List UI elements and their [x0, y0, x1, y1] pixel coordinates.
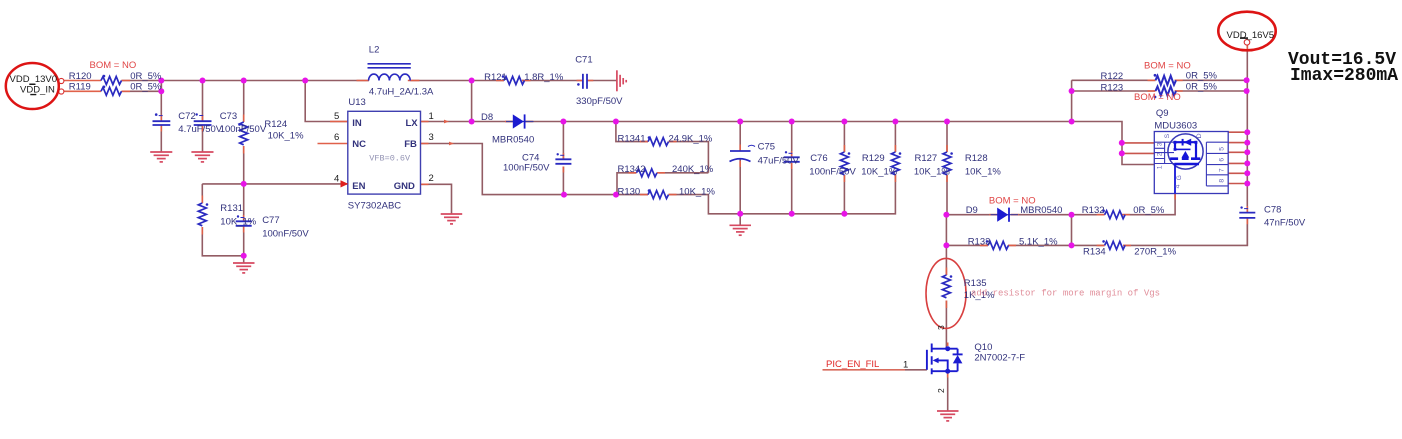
capacitor C71 horizontal — [583, 74, 587, 89]
pin leads C74 — [562, 153, 564, 173]
svg-text:R120: R120 — [69, 71, 92, 82]
junction R123 left — [1069, 88, 1075, 94]
junction Q9 drain stub 1 — [1244, 129, 1250, 135]
resistor R124 vertical — [240, 122, 248, 145]
wire Q9 right pin stubs — [1228, 132, 1247, 183]
wire GND pin2 to ground — [421, 184, 452, 213]
resistor R133 — [988, 241, 1008, 249]
junction R123 right on VDD_16V5 rail — [1244, 88, 1250, 94]
svg-text:BOM = NO: BOM = NO — [1144, 60, 1191, 71]
svg-text:MBR0540: MBR0540 — [492, 135, 534, 146]
transistor Q10 symbol — [927, 344, 963, 375]
wire R121 leads — [472, 80, 583, 82]
arrowhead LX wire — [444, 120, 449, 124]
pin leads C76 — [791, 151, 793, 169]
svg-text:2: 2 — [936, 388, 946, 393]
Q9 inner pin cells left — [1154, 142, 1174, 163]
pin leads R135 — [945, 268, 947, 309]
svg-text:10K_1%: 10K_1% — [679, 186, 715, 197]
junction Q9 source stub 2 — [1119, 150, 1125, 156]
wire VDD_IN row to R119 — [64, 90, 101, 92]
svg-text:1.8R_1%: 1.8R_1% — [524, 72, 564, 83]
svg-text:NC: NC — [352, 139, 366, 150]
resistor R132 — [1105, 211, 1126, 219]
wire vertical tie at x161 — [160, 81, 162, 92]
junction C74 bottom FB net — [561, 192, 567, 198]
svg-text:VFB=0.6V: VFB=0.6V — [369, 153, 411, 163]
pin leads C71 — [577, 80, 594, 82]
pin leads C73 — [202, 115, 204, 132]
svg-text:C75: C75 — [758, 141, 775, 152]
ground bank — [730, 225, 752, 235]
wire R119 out to junction — [122, 90, 162, 92]
pin leads C78 — [1246, 206, 1248, 224]
junction Q9 source stub 1 — [1119, 140, 1125, 146]
svg-text:D8: D8 — [481, 112, 493, 123]
resistor R127 vertical — [891, 152, 899, 175]
wire C71 to ground — [587, 80, 617, 82]
junction R129 bottom — [841, 211, 847, 217]
pin leads R130 — [640, 194, 677, 196]
junction R119 tie — [158, 88, 164, 94]
svg-text:10K_1%: 10K_1% — [220, 216, 256, 227]
svg-text:0R_5%: 0R_5% — [130, 71, 162, 82]
junction C75 top — [737, 119, 743, 125]
EN input arrow — [341, 180, 349, 187]
svg-text:EN: EN — [352, 181, 365, 192]
svg-text:LX: LX — [406, 118, 419, 129]
svg-text:4.7uH_2A/1.3A: 4.7uH_2A/1.3A — [369, 87, 434, 98]
svg-text:5: 5 — [1218, 147, 1225, 151]
svg-text:47uF/50V: 47uF/50V — [758, 155, 800, 166]
junction R122 right on VDD_16V5 rail — [1244, 77, 1250, 83]
wire IN pin drop — [305, 81, 348, 122]
junction R129 top — [841, 119, 847, 125]
pin leads Q10 — [947, 343, 949, 378]
wire Q10 source to ground — [947, 371, 949, 411]
resistor R1341 — [648, 138, 668, 146]
svg-text:R130: R130 — [618, 186, 641, 197]
svg-text:L2: L2 — [369, 44, 380, 55]
pin leads R128 — [946, 145, 948, 182]
junction C76 bottom — [789, 211, 795, 217]
svg-text:C78: C78 — [1264, 204, 1281, 215]
svg-text:24.9K_1%: 24.9K_1% — [669, 134, 713, 145]
wire R132 row — [1072, 194, 1176, 215]
svg-text:6: 6 — [334, 132, 339, 143]
junction C73 top — [200, 78, 206, 84]
ground U13 GND pin — [441, 214, 463, 224]
wire R129 column — [843, 122, 845, 214]
svg-text:VDD_16V5: VDD_16V5 — [1227, 30, 1275, 41]
svg-text:G: G — [1176, 175, 1183, 180]
diode D9 — [991, 214, 1019, 216]
junction R127 top — [892, 119, 898, 125]
capacitor C76 — [784, 157, 800, 162]
svg-text:MDU3603: MDU3603 — [1154, 120, 1197, 131]
junction Q9 drain stub 3 — [1244, 149, 1250, 155]
wire C78 bottom gap — [1246, 218, 1248, 246]
pin leads R122 — [1148, 79, 1183, 81]
svg-text:6: 6 — [1218, 158, 1225, 162]
Q9 substrate arrow — [1182, 151, 1190, 158]
svg-text:10K_1%: 10K_1% — [965, 167, 1001, 178]
junction Q9 drain stub 5 — [1244, 170, 1250, 176]
svg-text:U13: U13 — [348, 97, 365, 108]
wire IN pin stub bright — [330, 121, 348, 123]
resistor R128 vertical — [943, 152, 951, 175]
svg-text:47nF/50V: 47nF/50V — [1264, 218, 1306, 229]
pin leads R1341 — [640, 141, 677, 143]
svg-text:0R_5%: 0R_5% — [1186, 82, 1218, 93]
resistor R123 — [1156, 87, 1177, 96]
svg-text:10K_1%: 10K_1% — [268, 131, 304, 142]
svg-text:C71: C71 — [575, 54, 592, 65]
pin leads D9 — [989, 214, 1018, 216]
pin leads R121 — [496, 80, 531, 82]
wire R130 branch — [616, 195, 740, 214]
junction IN drop — [302, 78, 308, 84]
capacitor C78 — [1239, 213, 1255, 218]
svg-text:R1342: R1342 — [618, 164, 646, 175]
Q9 body diode — [1182, 139, 1184, 146]
junction R1342 FB net — [613, 192, 619, 198]
junction C74 top — [560, 119, 566, 125]
svg-text:0R_5%: 0R_5% — [1186, 70, 1218, 81]
wire Q9 left pin stubs — [1122, 143, 1154, 154]
pin lead VDD_16V5 port — [1246, 45, 1248, 51]
svg-text:Q10: Q10 — [974, 342, 992, 353]
Q9 inner pin cells right — [1206, 142, 1228, 186]
port circle VDD_IN — [59, 89, 64, 94]
pin leads R132 — [1097, 214, 1130, 216]
resistor R134 — [1105, 241, 1126, 249]
svg-text:IN: IN — [352, 118, 362, 129]
wire R131 leads — [202, 184, 243, 256]
svg-text:2: 2 — [1156, 152, 1163, 156]
svg-text:R119: R119 — [69, 82, 91, 93]
wire C72 column — [160, 81, 162, 152]
svg-text:R122: R122 — [1101, 71, 1124, 82]
junction EN node — [241, 181, 247, 187]
wire C75 column — [739, 122, 741, 214]
wire R1342 branch — [617, 173, 708, 195]
resistor R129 vertical — [840, 152, 848, 175]
svg-text:Imax=280mA: Imax=280mA — [1290, 66, 1398, 86]
arrowhead FB wire — [449, 142, 454, 146]
wire FB pin to FB row — [421, 144, 617, 195]
svg-text:100nF/50V: 100nF/50V — [220, 124, 267, 135]
svg-text:3: 3 — [1156, 142, 1163, 146]
ellipse highlight left — [6, 63, 59, 109]
wire top rail to L2 — [161, 80, 369, 82]
Q10 pin junction dots — [945, 346, 950, 351]
junction LX node — [469, 119, 475, 125]
resistor R120 — [101, 77, 122, 85]
svg-text:4: 4 — [1175, 184, 1182, 188]
wire R134 row — [1072, 218, 1248, 245]
svg-text:10K_1%: 10K_1% — [914, 167, 950, 178]
resistor R122 — [1156, 76, 1177, 85]
pin leads C75 — [739, 145, 741, 168]
wire R123 row to rail — [1114, 90, 1247, 92]
svg-text:270R_1%: 270R_1% — [1134, 246, 1176, 257]
pin leads R131 — [201, 196, 203, 235]
pin leads R1342 — [629, 172, 666, 174]
svg-text:SY7302ABC: SY7302ABC — [348, 201, 401, 212]
wire D9 row — [946, 214, 1071, 216]
wire Vout rail D8 row — [472, 121, 1072, 123]
svg-text:R134: R134 — [1083, 246, 1106, 257]
wire C76 column — [791, 122, 793, 214]
wire VDD_16V5 rail — [1246, 45, 1248, 212]
ground C72 — [150, 152, 172, 162]
wire EN net — [202, 183, 347, 185]
junction R124 top — [241, 78, 247, 84]
wire R122 R123 left verticals — [1072, 80, 1114, 121]
junction L2 out / R121 — [469, 78, 475, 84]
svg-text:R135: R135 — [964, 278, 987, 289]
svg-text:2N7002-7-F: 2N7002-7-F — [974, 352, 1025, 363]
resistor R121 — [504, 77, 524, 85]
svg-text:3: 3 — [429, 132, 434, 143]
pin leads R124 — [243, 115, 245, 154]
junction Q9 drain stub 2 — [1244, 140, 1250, 146]
junction R1341 tap — [613, 119, 619, 125]
svg-text:1: 1 — [1156, 165, 1163, 169]
pin leads R134 — [1097, 244, 1131, 246]
svg-text:R132: R132 — [1082, 205, 1105, 216]
wire Q10 gate net — [823, 369, 906, 371]
svg-text:100nF/50V: 100nF/50V — [809, 167, 856, 178]
svg-text:MBR0540: MBR0540 — [1020, 205, 1062, 216]
svg-text:0R_5%: 0R_5% — [130, 82, 162, 93]
wire bank bottom — [740, 174, 895, 214]
wire rail corner to Q9 left pins — [1072, 122, 1155, 165]
junction VIN rail at C72 — [158, 78, 164, 84]
svg-text:1: 1 — [429, 111, 434, 122]
pin lead Q9 gate — [1174, 194, 1176, 200]
svg-text:C72: C72 — [178, 111, 195, 122]
Q9 mosfet circle — [1168, 134, 1203, 169]
IC box U13 — [348, 111, 421, 194]
wire VDD_13V0 row to R120 — [64, 80, 101, 82]
resistor R135 vertical — [942, 275, 950, 298]
svg-text:Q9: Q9 — [1156, 108, 1169, 119]
wire R128 to R133 node vertical — [945, 215, 947, 246]
ellipse highlight VDD_16V5 — [1218, 12, 1275, 51]
pin leads C72 — [160, 115, 162, 132]
ground C73 — [191, 152, 213, 162]
junction R133 right / R134 — [1069, 242, 1075, 248]
resistor R1342 — [637, 169, 657, 177]
resistor R119 — [101, 87, 122, 95]
wire NC pin stub — [318, 143, 348, 145]
junction R128 top — [944, 119, 950, 125]
junction R128 bottom / D9 anode — [943, 212, 949, 218]
wire LX to Vout rail — [421, 81, 472, 122]
ground C71 rotated — [617, 70, 626, 91]
svg-text:S: S — [1164, 133, 1171, 138]
capacitor C72 — [153, 121, 171, 125]
svg-text:5: 5 — [334, 111, 339, 122]
pin leads R127 — [894, 145, 896, 182]
svg-text:4: 4 — [334, 174, 339, 185]
wire R124 column — [243, 81, 245, 184]
svg-text:FB: FB — [404, 139, 417, 150]
svg-text:R1341: R1341 — [618, 134, 646, 145]
ground Q10 — [937, 411, 959, 421]
junction C77 bottom — [241, 253, 247, 259]
wire R133 row — [946, 244, 1071, 246]
capacitor C74 — [555, 159, 571, 164]
junction R133 left / R135 top — [943, 242, 949, 248]
svg-text:D9: D9 — [966, 205, 978, 216]
pin leads R120 R119 — [121, 81, 130, 92]
wire R135 column — [945, 245, 947, 348]
svg-text:R133: R133 — [968, 237, 991, 248]
junction bank ground at C75 — [737, 211, 743, 217]
svg-text:VDD_IN: VDD_IN — [20, 84, 55, 95]
port circle VDD_13V0 — [59, 78, 64, 83]
pin leads D8 — [505, 121, 533, 123]
pin leads L2 — [357, 80, 420, 82]
svg-text:240K_1%: 240K_1% — [672, 164, 714, 175]
wire C73 column — [202, 81, 204, 152]
svg-text:330pF/50V: 330pF/50V — [576, 96, 623, 107]
wire L2 right to R121 tap — [410, 80, 471, 82]
Q9 mosfet internals — [1170, 142, 1200, 193]
wire R128 column — [946, 122, 948, 215]
resistor R130 — [648, 191, 668, 199]
inductor L2 — [368, 64, 411, 81]
svg-text:5.1K_1%: 5.1K_1% — [1019, 237, 1058, 248]
svg-text:4.7uF/50V: 4.7uF/50V — [178, 124, 222, 135]
svg-text:R128: R128 — [965, 153, 988, 164]
pin leads U13 right — [421, 122, 429, 185]
svg-text:PIC_EN_FIL: PIC_EN_FIL — [826, 359, 879, 370]
svg-text:1: 1 — [903, 359, 908, 370]
svg-text:BOM = NO: BOM = NO — [1134, 92, 1181, 103]
ground C77 — [233, 263, 255, 273]
wire R120 out to junction — [122, 80, 162, 82]
wire R122 row to rail — [1114, 79, 1247, 81]
capacitor C73 — [194, 121, 212, 125]
svg-text:R123: R123 — [1101, 82, 1124, 93]
svg-text:C77: C77 — [262, 215, 279, 226]
ellipse highlight R135 — [926, 258, 966, 328]
wire D9-R133 vertical — [1071, 215, 1073, 246]
wire C77 ground stem — [243, 256, 245, 263]
svg-text:R121: R121 — [484, 72, 507, 83]
svg-text:R131: R131 — [220, 203, 243, 214]
svg-text:R129: R129 — [862, 153, 885, 164]
svg-text:2: 2 — [429, 173, 434, 184]
svg-text:add resistor for more margin o: add resistor for more margin of Vgs — [971, 289, 1160, 299]
port circle VDD_16V5 — [1244, 40, 1250, 46]
pin leads C77 — [243, 215, 245, 233]
junction Q9 drain stub 6 — [1244, 181, 1250, 187]
wire R127 column — [894, 122, 896, 153]
junction D9 cathode / R132 — [1069, 212, 1075, 218]
svg-text:R124: R124 — [264, 119, 287, 130]
svg-text:10K_1%: 10K_1% — [861, 167, 897, 178]
wire R1341 branch — [616, 122, 709, 173]
pin leads R133 — [980, 244, 1016, 246]
capacitor C75 polarized — [730, 145, 756, 161]
svg-text:GND: GND — [394, 181, 415, 192]
svg-text:D: D — [1196, 133, 1203, 138]
junction C76 top — [789, 119, 795, 125]
transistor Q9 package box — [1154, 132, 1228, 194]
svg-text:3: 3 — [936, 325, 946, 330]
svg-text:C73: C73 — [220, 111, 237, 122]
junction Vout rail to R122 branch — [1069, 119, 1075, 125]
svg-text:C76: C76 — [810, 153, 827, 164]
resistor R131 vertical — [198, 203, 206, 226]
wire bank ground stem — [739, 214, 741, 225]
pin leads R123 — [1148, 90, 1183, 92]
svg-text:0R_5%: 0R_5% — [1133, 205, 1165, 216]
diode D8 — [506, 121, 534, 123]
wire C77 column — [243, 184, 245, 256]
pin leads R129 — [843, 145, 845, 182]
svg-text:BOM = NO: BOM = NO — [90, 60, 137, 71]
svg-text:8: 8 — [1218, 179, 1225, 183]
svg-text:R127: R127 — [915, 153, 938, 164]
svg-text:7: 7 — [1218, 168, 1225, 172]
wire C74 column — [562, 122, 564, 195]
red component pin leads — [121, 45, 1247, 377]
svg-text:100nF/50V: 100nF/50V — [503, 163, 550, 174]
capacitor C77 — [236, 221, 252, 226]
svg-text:100nF/50V: 100nF/50V — [262, 229, 309, 240]
junction Q9 drain stub 4 — [1244, 160, 1250, 166]
